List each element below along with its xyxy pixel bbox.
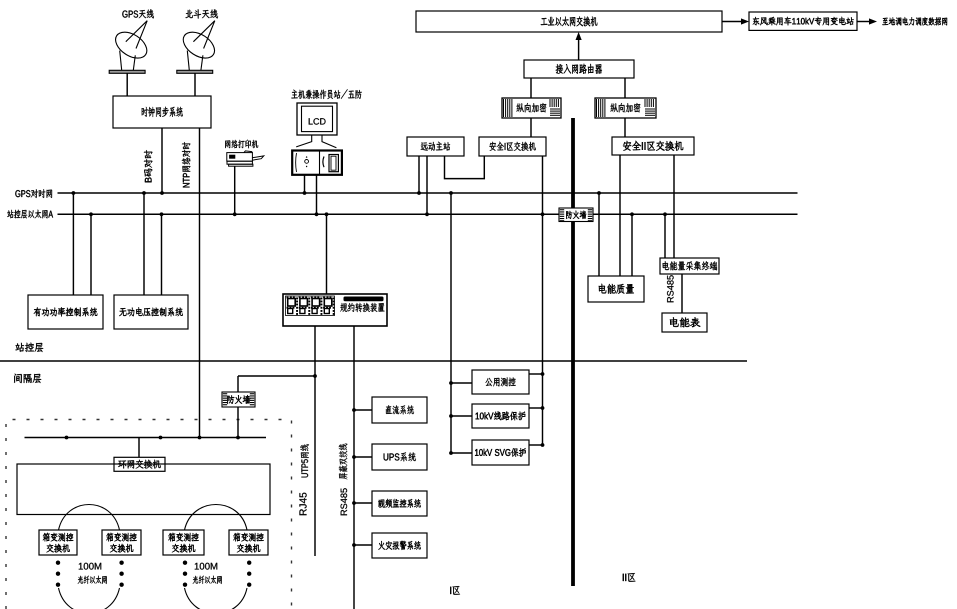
wire converter bottom-left drop [314, 326, 316, 556]
wire zone-II switch drop to power quality [619, 155, 621, 276]
icon workstation stand [296, 135, 336, 148]
box safety zone II switch 安全II区交换机 [612, 137, 694, 155]
label fiber ethernet right [193, 576, 222, 584]
wire router to right encryptor [624, 78, 626, 98]
box energy acquisition terminal 电能量采集终端 [660, 258, 719, 274]
box protocol conversion device 规约转换装置 [283, 294, 387, 326]
wire bus2 drop to protocol converter [326, 214, 328, 294]
label zone II [623, 573, 636, 582]
wire converter bottom-right drop (shielded pair bus) [353, 326, 355, 609]
box UPS system [372, 444, 427, 470]
icon converter display bar [344, 297, 384, 302]
label UTP5 cable (rotated) [300, 444, 309, 477]
box safety zone I switch 安全I区交换机 [479, 137, 546, 156]
label to power dispatch data network [882, 17, 947, 25]
label protocol conversion device text [340, 303, 384, 312]
label GPS antenna [122, 9, 153, 18]
label RS485 (rotated) [341, 488, 348, 515]
wire link converter to lower firewall [238, 375, 315, 377]
wire left encryptor to zone-I switch [530, 118, 532, 137]
box industrial ethernet switch 工业以太网交换机 [416, 11, 722, 32]
wire bus2 drop to power quality [631, 214, 633, 276]
label fiber ethernet left [78, 576, 107, 584]
box transformer MC switch 4 [229, 530, 268, 555]
box telecontrol master 远动主站 [407, 137, 464, 156]
wire bus2 drop to energy terminal [664, 214, 666, 258]
wire layer divider line [0, 360, 747, 362]
label GPS timing net [15, 189, 52, 198]
box transformer MC switch 1 [39, 530, 77, 555]
box 10kV SVG protection [472, 440, 529, 465]
label shielded twisted pair (rotated) [339, 444, 348, 480]
icon network printer [227, 151, 264, 166]
wire GPS antenna stem [126, 73, 128, 96]
wire workstation leg left [304, 175, 306, 193]
box active power control system 有功功率控制系统 [28, 295, 103, 329]
label 100M right [195, 563, 217, 570]
box transformer MC switch 2 [102, 530, 141, 555]
wire protection left links [451, 382, 472, 384]
wire zone-I switch drop to protection column right [542, 156, 544, 445]
wire bus station ethernet A [58, 213, 798, 215]
label LCD [309, 118, 326, 124]
icon GPS antenna dish [109, 21, 151, 74]
wire B-code timing drop [161, 128, 163, 193]
box DC system 直流系统 [372, 397, 427, 423]
wire telecontrol to zone-I switch L-link [445, 156, 485, 179]
wire bus1 drop to power quality [598, 193, 600, 276]
label host and operator station / five-prevention [291, 89, 361, 99]
wire ring bus to ring switch [138, 438, 140, 458]
wire protection right links [529, 373, 543, 375]
icon BeiDou antenna dish [177, 21, 219, 74]
wire fiber ring arc lower right [185, 588, 248, 609]
box access network router 接入网路由器 [524, 60, 634, 78]
wire lower firewall to ring bus [237, 407, 239, 438]
label BeiDou antenna [186, 9, 218, 18]
wire bus1 drop to reactive voltage box [143, 193, 145, 295]
box Dongfeng 110kV substation [749, 12, 857, 30]
label network printer [225, 140, 258, 149]
box video surveillance system 视频监控系统 [372, 491, 427, 516]
wire thick zone separator [571, 118, 575, 586]
box longitudinal encryptor right 纵向加密 [595, 98, 656, 118]
wire bus1 drop to protection column left [450, 193, 452, 453]
wire printer drop [234, 166, 236, 214]
label RS485 vertical near meter [667, 275, 674, 302]
box common measurement control 公用测控 [472, 370, 529, 394]
box firewall lower 防火墙 [222, 392, 255, 407]
wire bus1 drop to active power box [72, 193, 74, 295]
icon workstation system unit [292, 151, 342, 175]
label bay layer 间隔层 [14, 374, 41, 383]
box ring network switch 环网交换机 [114, 457, 165, 471]
wire telecontrol leg to bus1 [418, 156, 420, 193]
box longitudinal encryptor left 纵向加密 [502, 98, 561, 118]
wire bus GPS time net [58, 192, 798, 194]
wire branches to system boxes [354, 409, 372, 411]
label B-code timing (rotated) [144, 150, 152, 182]
wire workstation leg right [316, 175, 318, 215]
wire fiber ring arc upper right [185, 505, 248, 531]
box bay device frame [17, 464, 270, 515]
box 10kV line protection [472, 404, 529, 428]
box energy meter 电能表 [662, 313, 707, 332]
box fire alarm system 火灾报警系统 [372, 533, 427, 558]
wire telecontrol leg to bus2 [426, 156, 428, 214]
label RJ45 (rotated) [299, 493, 306, 515]
wire BeiDou antenna stem [194, 73, 196, 96]
wire arrow to dedicated substation box [722, 21, 743, 23]
wire ring network bus [25, 437, 267, 439]
label station control ethernet A [7, 210, 53, 219]
label 100M left [79, 563, 101, 570]
wire bus2 drop to active power box [90, 214, 92, 295]
wire bus2 drop to reactive voltage box [161, 214, 163, 295]
label zone I [450, 586, 460, 595]
label station control layer 站控层 [15, 343, 43, 352]
wire NTP network timing drop (to ring bus) [199, 128, 201, 438]
wire fiber ring arc upper left [59, 505, 120, 531]
icon operator workstation monitor [297, 103, 337, 135]
box transformer MC switch 3 [163, 530, 204, 555]
box clock synchronization system 时钟同步系统 [113, 96, 211, 128]
box firewall on bus 防火墙 [559, 208, 593, 222]
wire fiber ring arc lower left [59, 588, 120, 609]
node junction dots [160, 191, 164, 195]
wire arrow router to industrial switch [578, 38, 580, 60]
wire right encryptor to zone-II switch [624, 118, 626, 137]
wire router to left encryptor [530, 78, 532, 98]
label NTP network timing (rotated) [182, 142, 191, 187]
node continuation dots columns [56, 561, 60, 565]
box power quality 电能质量 [588, 276, 644, 302]
wire terminal to energy meter RS485 [681, 274, 683, 313]
box reactive voltage control system 无功电压控制系统 [114, 295, 188, 329]
dashed box transformer area enclosure [6, 420, 292, 609]
wire arrow to dispatch data network [857, 21, 871, 23]
wire zone-II switch drop to energy terminal [673, 155, 675, 258]
